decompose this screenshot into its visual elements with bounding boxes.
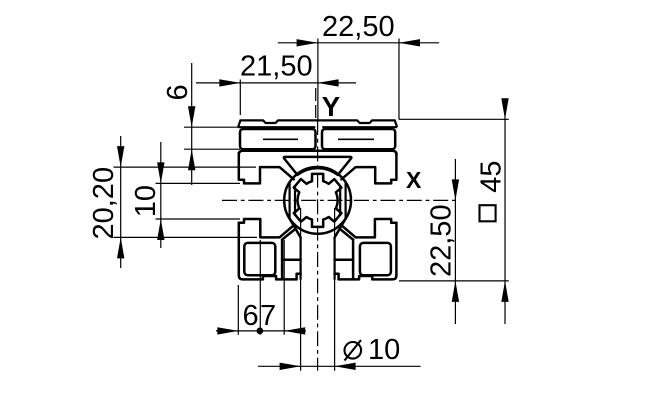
left face lower and bottom face xyxy=(239,223,301,280)
dim 6-7 arrows xyxy=(217,327,238,334)
body top surface xyxy=(239,151,397,155)
right slot back wall xyxy=(345,182,347,218)
right web cross line xyxy=(335,219,346,238)
dim square45 ext lines xyxy=(399,118,509,120)
corner square hole right xyxy=(360,243,391,275)
chamber inner line right xyxy=(338,138,374,140)
dim 10 arrows xyxy=(157,162,164,183)
dim 22,50 right arrows xyxy=(452,179,459,200)
dim 6 arrows xyxy=(188,106,195,127)
dim 22,50 top line xyxy=(278,42,439,44)
chamber inner line left xyxy=(263,138,298,140)
right corner web wall xyxy=(352,240,355,280)
svg-text:21,50: 21,50 xyxy=(240,51,313,83)
center spline bore xyxy=(294,174,342,227)
dim 22,50 right line xyxy=(454,159,456,324)
dim 21,50 line xyxy=(196,82,356,84)
svg-text:Y: Y xyxy=(322,91,340,122)
dim dia10 symbol xyxy=(345,342,362,359)
dim 21,50 arrows xyxy=(219,79,240,86)
dim 22,50 top ext line xyxy=(398,39,400,120)
dim 6-7 line xyxy=(216,330,306,332)
dim 6 line xyxy=(191,63,193,185)
left corner web wall xyxy=(281,240,284,280)
horizontal centre line X axis xyxy=(222,199,457,201)
dim 6-7 ext lines xyxy=(237,285,239,335)
channel wall left xyxy=(300,238,302,280)
left slot back wall xyxy=(289,182,291,218)
dim dia10 ext lines xyxy=(300,208,302,371)
svg-text:22,50: 22,50 xyxy=(322,11,395,43)
dim 21,50 ext line xyxy=(239,80,241,116)
channel wall right xyxy=(334,238,336,280)
right face upper lip and ceiling xyxy=(341,153,396,183)
closed slot chamber right xyxy=(322,129,395,149)
left slot back wall inner xyxy=(294,186,296,215)
dim 6 ext lines xyxy=(184,126,238,128)
right corner web xyxy=(341,230,353,240)
svg-text:20,20: 20,20 xyxy=(88,167,120,240)
vertical centre line solid top xyxy=(317,39,319,121)
left corner web xyxy=(282,230,294,240)
left face upper lip and ceiling xyxy=(239,153,294,183)
core tube circle xyxy=(284,167,351,234)
svg-text:X: X xyxy=(406,167,422,193)
svg-text:6: 6 xyxy=(162,84,194,100)
dim 6-7 dot xyxy=(257,328,264,335)
svg-text:10: 10 xyxy=(130,185,162,217)
dim 10 ext lines xyxy=(156,182,241,184)
svg-text:10: 10 xyxy=(368,334,400,366)
corner square hole left xyxy=(244,243,275,275)
dim 22,50 top arrows xyxy=(297,39,318,46)
cavity above core xyxy=(284,157,352,175)
right slot lower lip and floor xyxy=(341,219,397,237)
dim dia10 arrows xyxy=(280,363,301,370)
profile top cover plate xyxy=(238,120,397,127)
left web cross line xyxy=(290,219,301,238)
left slot lower lip and floor xyxy=(239,219,295,237)
dim 20,20 line xyxy=(120,136,122,268)
dim square45 arrows xyxy=(501,98,508,119)
svg-text:22,50: 22,50 xyxy=(425,204,457,277)
dim 20,20 arrows xyxy=(117,146,124,167)
dim 20,20 ext lines xyxy=(114,166,257,168)
svg-text:45: 45 xyxy=(476,161,508,193)
closed slot chamber left xyxy=(240,129,316,149)
right slot back wall inner xyxy=(339,186,341,215)
vertical centre line upper dashed xyxy=(315,88,317,120)
right face lower and bottom face xyxy=(335,223,397,280)
svg-text:7: 7 xyxy=(260,300,276,332)
dim square45 line xyxy=(504,99,506,324)
vertical centre line dashed xyxy=(317,120,319,371)
svg-text:6: 6 xyxy=(243,300,259,332)
dim square45 label xyxy=(480,205,496,221)
dim dia10 line xyxy=(258,365,421,367)
dim 10 line xyxy=(160,142,162,248)
